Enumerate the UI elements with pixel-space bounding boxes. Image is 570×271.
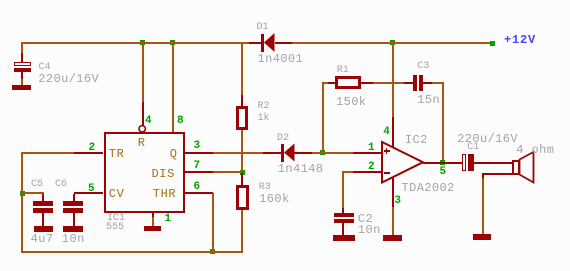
ground below C5 (34, 226, 54, 231)
ground below C2 (333, 235, 355, 240)
pin 5 IC2 output (423, 162, 445, 164)
pin 2 TR (74, 152, 104, 154)
speaker 4 ohm (512, 160, 520, 175)
junction C5 (20, 191, 25, 196)
junction output node (440, 160, 445, 165)
wire C4 drop (21, 44, 23, 54)
wire R1 left elbow (322, 82, 328, 84)
wire R2 bottom to DIS junction (241, 130, 243, 173)
junction pin4 drop (140, 40, 145, 45)
resistor R1 (328, 82, 336, 84)
pin 6 THR (185, 192, 214, 194)
wire pin4 drop (142, 44, 144, 103)
pin 3 IC2 (392, 177, 394, 207)
capacitor C3 (404, 82, 413, 84)
pin 2 IC2 (353, 171, 382, 173)
wire R1 to C3 (373, 82, 404, 84)
ground below C6 (63, 226, 83, 231)
junction D2 node (320, 150, 325, 155)
wire top rail left segment (21, 42, 249, 44)
wire C3 riser down to output node (442, 84, 444, 161)
wire IC2 pin4 drop (392, 44, 394, 118)
capacitor C5 (42, 194, 44, 201)
pin 5 CV (74, 192, 104, 194)
diode D1 (249, 42, 262, 44)
node +12V (490, 41, 495, 46)
wire C5 stub (23, 192, 44, 194)
wire IC2 pin2 elbow (342, 171, 354, 173)
ground below IC2 pin 3 (383, 235, 402, 240)
pin 3 Q (185, 152, 214, 154)
pin 1 IC2 (353, 152, 383, 154)
wire TR to left rail (23, 152, 74, 154)
pin 4 IC2 (392, 117, 394, 148)
junction IC2 pin4 drop (390, 40, 395, 45)
pin 8 label (177, 116, 184, 127)
wire bottom rail (21, 251, 243, 253)
wire R2 top drop (241, 44, 243, 96)
wire speaker return (482, 173, 512, 175)
wire D2 to IC2 (312, 152, 353, 154)
wire top rail right segment to +12V (292, 42, 490, 44)
junction DIS node (240, 170, 245, 175)
resistor R2 (241, 95, 243, 106)
capacitor C4 (21, 53, 23, 62)
wire C3 right elbow (432, 82, 444, 84)
capacitor C1 (445, 162, 462, 164)
ground below speaker return (473, 234, 491, 240)
wire Q to D2 (213, 152, 263, 154)
wire left vertical rail (21, 152, 23, 253)
wire D2 node riser to R1 (322, 84, 324, 152)
wire DIS horizontal (213, 171, 241, 173)
junction bottom rail (210, 249, 215, 254)
ground below pin 1 (144, 226, 162, 231)
resistor R3 (241, 173, 243, 185)
capacitor C2 (342, 208, 344, 213)
pin 7 DIS (185, 171, 214, 173)
wire THR corner down (212, 193, 214, 251)
wire R3 riser (241, 210, 243, 251)
wire pin8 drop (172, 44, 174, 132)
pin 1 GND (152, 213, 154, 217)
diode D2 (263, 152, 281, 154)
IC1 555 box (104, 132, 185, 213)
ground below C4 (12, 85, 31, 90)
capacitor C6 (73, 194, 75, 202)
junction pin8 drop (170, 40, 175, 45)
